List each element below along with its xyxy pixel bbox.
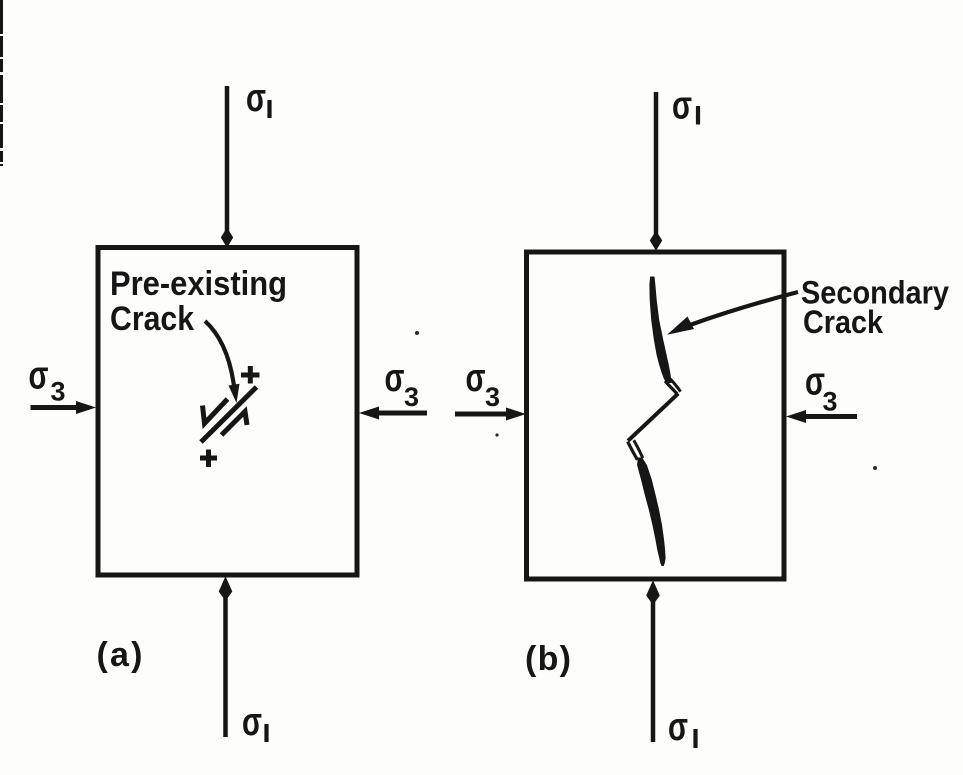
plus sign lower bbox=[200, 450, 217, 468]
arrow sigma3 right (a) bbox=[359, 407, 427, 420]
plus sign upper bbox=[241, 366, 260, 384]
svg-text:3: 3 bbox=[823, 387, 838, 417]
pre-existing crack main line bbox=[201, 387, 257, 442]
label sigma3 right (a) bbox=[385, 356, 420, 412]
arrow sigma1 top (b) bbox=[650, 92, 662, 251]
secondary crack upper wing bbox=[649, 277, 671, 384]
scan speck dots bbox=[415, 331, 877, 470]
svg-text:σ: σ bbox=[246, 76, 266, 120]
specimen box (a) bbox=[98, 248, 357, 576]
secondary crack middle segment bbox=[628, 394, 678, 441]
svg-text:σ: σ bbox=[29, 354, 49, 398]
svg-text:σ: σ bbox=[672, 84, 692, 128]
svg-text:(b): (b) bbox=[525, 640, 571, 678]
doubled head of lower wing bbox=[628, 442, 638, 460]
label sigma1 top (b) bbox=[672, 84, 698, 128]
arrow sigma1 bottom (b) bbox=[646, 580, 660, 742]
shear half-arrow lower-right bbox=[222, 412, 248, 436]
label sigma3 left (a) bbox=[29, 354, 66, 407]
label sigma1 top (a) bbox=[246, 76, 270, 120]
svg-text:3: 3 bbox=[404, 382, 419, 412]
label Pre-existing Crack bbox=[110, 265, 287, 338]
label sigma3 left (b) bbox=[466, 356, 501, 412]
svg-text:(a): (a) bbox=[97, 636, 143, 674]
pointer arrow to secondary crack bbox=[667, 292, 798, 335]
svg-text:σ: σ bbox=[466, 356, 486, 400]
svg-text:σ: σ bbox=[242, 700, 262, 744]
specimen box (b) bbox=[527, 252, 785, 579]
svg-text:Crack: Crack bbox=[803, 304, 883, 340]
svg-text:σ: σ bbox=[668, 705, 688, 749]
svg-text:Crack: Crack bbox=[110, 300, 194, 338]
pointer arrow to pre-existing crack bbox=[205, 321, 240, 403]
secondary crack lower wing bbox=[637, 458, 666, 567]
svg-text:3: 3 bbox=[51, 377, 66, 407]
arrow sigma3 right (b) bbox=[786, 410, 857, 423]
label sigma1 bottom (b) bbox=[668, 705, 696, 749]
doubled tail of upper wing bbox=[665, 381, 677, 394]
label Secondary Crack bbox=[801, 275, 949, 341]
svg-text:σ: σ bbox=[385, 356, 405, 400]
arrow sigma1 top (a) bbox=[221, 86, 233, 248]
arrow sigma3 left (b) bbox=[455, 408, 526, 421]
label sigma1 bottom (a) bbox=[242, 700, 267, 744]
shear half-arrow upper-left bbox=[203, 399, 228, 424]
svg-text:3: 3 bbox=[485, 382, 500, 412]
label sigma3 right (b) bbox=[805, 360, 838, 417]
svg-text:Pre-existing: Pre-existing bbox=[110, 265, 287, 303]
arrow sigma3 left (a) bbox=[31, 401, 97, 414]
scan artifact bar at left edge bbox=[0, 0, 3, 166]
arrow sigma1 bottom (a) bbox=[219, 576, 233, 737]
